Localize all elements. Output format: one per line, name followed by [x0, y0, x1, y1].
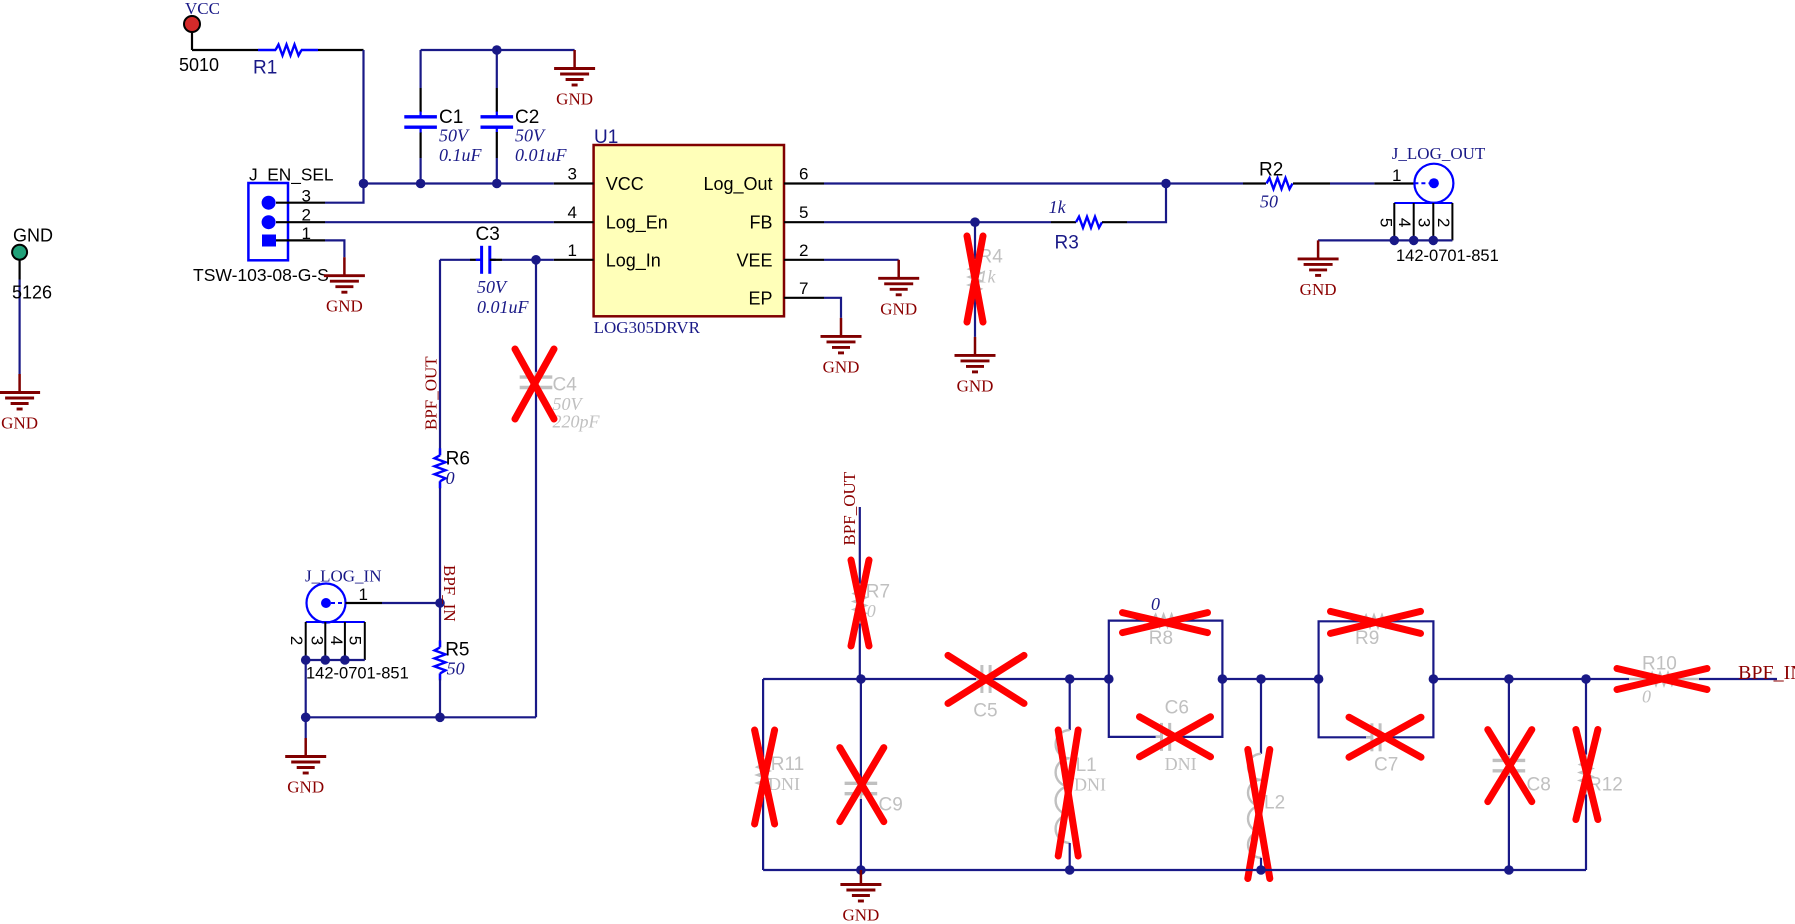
svg-text:DNI: DNI: [768, 774, 800, 794]
svg-text:3: 3: [1415, 218, 1434, 227]
svg-text:R6: R6: [446, 449, 470, 470]
svg-text:0: 0: [1151, 594, 1160, 614]
svg-text:142-0701-851: 142-0701-851: [306, 665, 409, 683]
svg-text:BPF_OUT: BPF_OUT: [422, 356, 441, 430]
svg-text:GND: GND: [287, 778, 324, 797]
svg-text:VCC: VCC: [606, 174, 644, 194]
svg-text:3: 3: [302, 186, 311, 205]
svg-text:R10: R10: [1642, 654, 1677, 675]
svg-text:7: 7: [799, 279, 808, 298]
svg-text:C5: C5: [973, 701, 997, 722]
svg-text:GND: GND: [326, 297, 363, 316]
svg-text:2: 2: [302, 206, 311, 225]
svg-text:0: 0: [1642, 687, 1651, 707]
svg-text:2: 2: [1434, 218, 1453, 227]
svg-text:BPF_OUT: BPF_OUT: [840, 471, 859, 545]
svg-text:50V: 50V: [439, 126, 470, 146]
svg-text:220pF: 220pF: [553, 412, 601, 432]
svg-text:L2: L2: [1264, 793, 1285, 814]
svg-text:3: 3: [308, 636, 327, 645]
svg-text:GND: GND: [880, 299, 917, 318]
svg-text:50: 50: [447, 658, 465, 678]
svg-text:GND: GND: [1300, 280, 1337, 299]
svg-text:5: 5: [346, 636, 365, 645]
svg-text:2: 2: [287, 636, 306, 645]
svg-text:2: 2: [799, 241, 808, 260]
svg-text:GND: GND: [842, 906, 879, 924]
svg-text:1: 1: [359, 585, 368, 604]
svg-text:R5: R5: [445, 639, 469, 660]
svg-text:GND: GND: [957, 376, 994, 395]
svg-text:0.01uF: 0.01uF: [477, 297, 530, 317]
svg-text:GND: GND: [556, 90, 593, 109]
svg-text:BPF_IN: BPF_IN: [1738, 662, 1795, 684]
svg-text:Log_In: Log_In: [606, 250, 661, 271]
svg-text:5: 5: [1377, 218, 1396, 227]
svg-text:GND: GND: [1, 414, 38, 433]
svg-text:5010: 5010: [179, 55, 219, 75]
svg-text:BPF_IN: BPF_IN: [440, 565, 459, 622]
svg-text:R9: R9: [1355, 628, 1379, 649]
svg-text:EP: EP: [748, 288, 772, 308]
svg-text:50: 50: [1260, 192, 1278, 212]
svg-text:1: 1: [302, 224, 311, 243]
svg-text:1: 1: [568, 241, 577, 260]
svg-text:0.01uF: 0.01uF: [515, 145, 568, 165]
svg-text:R1: R1: [253, 58, 277, 79]
svg-text:50V: 50V: [477, 277, 508, 297]
svg-text:5: 5: [799, 203, 808, 222]
svg-text:L1: L1: [1076, 755, 1097, 776]
svg-text:DNI: DNI: [1165, 754, 1197, 774]
svg-text:VEE: VEE: [736, 250, 772, 270]
svg-text:R7: R7: [866, 582, 890, 603]
svg-text:Log_Out: Log_Out: [703, 174, 772, 195]
svg-text:GND: GND: [13, 225, 53, 245]
svg-text:0.1uF: 0.1uF: [439, 145, 483, 165]
svg-text:Log_En: Log_En: [606, 213, 668, 234]
svg-text:1: 1: [1392, 166, 1401, 185]
svg-text:142-0701-851: 142-0701-851: [1396, 247, 1499, 265]
svg-text:R8: R8: [1149, 628, 1173, 649]
svg-text:4: 4: [568, 203, 577, 222]
svg-text:0: 0: [867, 601, 876, 621]
svg-text:R11: R11: [771, 754, 804, 775]
svg-text:J_EN_SEL: J_EN_SEL: [249, 165, 334, 185]
svg-text:U1: U1: [594, 127, 618, 148]
svg-text:0: 0: [446, 468, 455, 488]
svg-text:C3: C3: [476, 224, 500, 245]
svg-text:C6: C6: [1165, 698, 1189, 719]
svg-text:6: 6: [799, 165, 808, 184]
svg-text:FB: FB: [749, 213, 772, 233]
svg-text:LOG305DRVR: LOG305DRVR: [594, 318, 701, 337]
svg-text:J_LOG_IN: J_LOG_IN: [305, 567, 382, 586]
svg-text:50V: 50V: [515, 126, 546, 146]
svg-text:3: 3: [568, 165, 577, 184]
svg-text:R3: R3: [1055, 233, 1079, 254]
svg-text:4: 4: [327, 636, 346, 645]
svg-text:5126: 5126: [12, 283, 52, 303]
svg-text:1k: 1k: [979, 267, 997, 287]
svg-text:C4: C4: [553, 375, 578, 396]
svg-text:R2: R2: [1259, 160, 1283, 181]
svg-text:DNI: DNI: [1074, 775, 1106, 795]
svg-text:1k: 1k: [1049, 197, 1067, 217]
svg-text:J_LOG_OUT: J_LOG_OUT: [1392, 144, 1486, 163]
svg-text:TSW-103-08-G-S: TSW-103-08-G-S: [193, 265, 329, 285]
svg-text:C7: C7: [1374, 755, 1398, 776]
svg-text:GND: GND: [823, 357, 860, 376]
svg-text:4: 4: [1395, 218, 1414, 227]
